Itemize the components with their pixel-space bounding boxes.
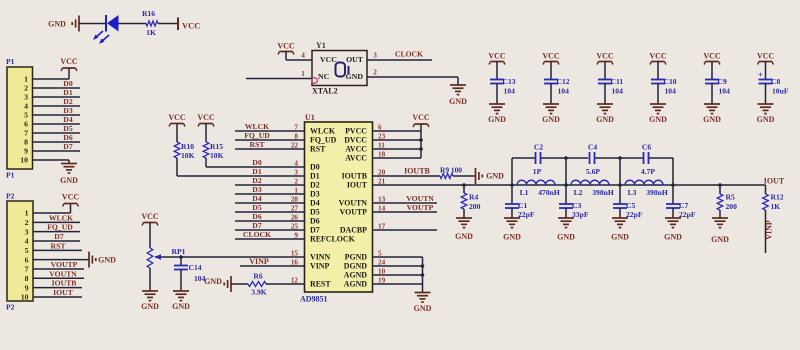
svg-text:VCC: VCC [197,113,215,122]
capacitor C14 [180,257,182,266]
wire [373,211,438,213]
power VCC [144,222,157,224]
wire [422,257,424,293]
svg-text:D3: D3 [252,185,262,194]
svg-text:5.6P: 5.6P [586,167,600,176]
ground [415,292,431,294]
svg-text:104: 104 [665,87,677,96]
svg-text:12: 12 [291,276,299,284]
svg-text:GND: GND [703,115,721,124]
power VCC [177,18,179,31]
resistor R15 [203,142,209,158]
svg-text:16: 16 [291,258,299,266]
wire [511,158,513,185]
svg-text:VCC: VCC [168,113,186,122]
svg-text:C2: C2 [534,143,543,152]
wire [420,124,422,158]
wire [765,84,767,105]
capacitor C9 [705,79,719,81]
capacitor C1 [511,185,513,204]
wire [33,212,71,214]
wire [711,84,713,105]
wire [235,220,305,222]
svg-text:REST: REST [310,280,331,289]
svg-text:14: 14 [378,204,386,212]
wire [33,268,84,270]
svg-text:D5: D5 [310,208,320,217]
svg-text:GND: GND [414,304,432,313]
svg-text:19: 19 [378,276,386,284]
svg-text:24: 24 [378,258,386,266]
svg-text:D1: D1 [252,167,262,176]
wire [541,157,588,159]
wire [511,208,513,218]
svg-text:L2: L2 [574,188,583,197]
wire [235,139,305,141]
resistor R6 [248,282,266,287]
svg-text:GND: GND [503,233,521,242]
svg-text:8: 8 [294,132,298,140]
svg-text:6: 6 [378,123,382,131]
ground [665,217,681,219]
ground [543,103,559,105]
svg-text:GND: GND [596,115,614,124]
svg-text:D7: D7 [54,232,64,241]
wire [235,202,305,204]
svg-text:390nH: 390nH [646,188,668,197]
resistor R9 [440,174,453,179]
svg-text:10K: 10K [210,151,224,160]
svg-text:R15: R15 [210,142,223,151]
svg-text:C8: C8 [771,77,780,86]
svg-text:VCC: VCC [182,20,200,30]
svg-text:2: 2 [294,177,298,185]
svg-text:1K: 1K [771,202,781,211]
svg-text:FQ_UD: FQ_UD [244,131,270,140]
svg-text:C4: C4 [588,143,597,152]
wire [463,209,465,218]
svg-text:9: 9 [24,147,28,156]
wire [373,139,422,141]
svg-text:VCC: VCC [542,52,560,61]
svg-text:R6: R6 [253,272,262,281]
wire [119,23,147,25]
svg-text:GND: GND [172,302,190,311]
inductor L3 [625,180,663,185]
svg-text:104: 104 [612,87,624,96]
svg-text:D0: D0 [252,158,262,167]
svg-text:22: 22 [291,141,299,149]
svg-text:C1: C1 [518,201,527,210]
wire [158,23,178,25]
svg-text:C14: C14 [189,263,202,272]
wire [373,274,423,276]
svg-text:VOUTN: VOUTN [406,194,434,203]
svg-text:10: 10 [21,293,29,302]
wire [33,249,82,251]
capacitor C6 [643,152,645,164]
svg-text:IOUT: IOUT [347,181,368,190]
svg-text:3: 3 [24,93,28,102]
wire [33,221,80,223]
wire [619,158,621,185]
wire [33,231,80,233]
svg-text:1K: 1K [146,28,156,37]
svg-text:6: 6 [25,255,29,264]
wire [373,265,423,267]
svg-text:VCC: VCC [62,193,80,202]
ground [504,217,520,219]
ground [450,84,466,86]
resistor R5 [719,185,721,194]
svg-text:R9 100: R9 100 [440,166,462,175]
svg-text:7: 7 [24,129,28,138]
svg-text:D5: D5 [252,203,262,212]
wire [33,96,81,98]
wire [367,76,458,78]
svg-text:21: 21 [378,177,386,185]
wire [619,208,621,218]
svg-text:R5: R5 [726,193,735,202]
svg-text:VOUTP: VOUTP [407,203,434,212]
svg-text:104: 104 [558,87,570,96]
svg-text:VOUTP: VOUTP [51,260,78,269]
svg-text:26: 26 [291,213,299,221]
ground [230,276,232,292]
svg-text:11: 11 [378,141,385,149]
wire [373,130,422,132]
svg-text:5: 5 [24,111,28,120]
svg-text:VOUTP: VOUTP [340,208,368,217]
wire [33,87,81,89]
resistor R16 [146,21,158,26]
svg-text:VCC: VCC [757,52,775,61]
wire [649,157,673,159]
svg-text:10: 10 [378,267,386,275]
svg-text:4: 4 [24,102,28,111]
svg-text:1: 1 [301,70,305,78]
wire [176,158,178,176]
svg-text:D2: D2 [63,97,73,106]
wire [367,59,432,61]
svg-text:C3: C3 [572,201,581,210]
svg-text:IOUT: IOUT [764,177,785,186]
svg-text:GND: GND [98,255,116,264]
svg-text:7: 7 [25,265,29,274]
resistor R12 [765,185,767,194]
ground [173,290,189,292]
wire [33,259,89,261]
node junction [179,255,183,259]
ground [597,103,613,105]
svg-text:FQ_UD: FQ_UD [310,136,337,145]
svg-text:VCC: VCC [488,52,506,61]
svg-text:D1: D1 [310,172,320,181]
svg-text:GND: GND [649,115,667,124]
svg-text:WLCK: WLCK [245,122,269,131]
capacitor C13 [490,79,504,81]
wire [595,157,643,159]
wire [550,84,552,105]
svg-text:D7: D7 [252,221,262,230]
capacitor C11 [598,79,612,81]
svg-text:D2: D2 [310,181,320,190]
svg-text:WLCK: WLCK [49,213,73,222]
ground [712,217,728,219]
wire [33,150,81,152]
svg-text:C13: C13 [503,77,516,86]
wire [373,148,422,150]
ground [650,103,666,105]
ground [758,103,774,105]
svg-text:2: 2 [24,84,28,93]
svg-text:D7: D7 [63,142,73,151]
svg-text:CLOCK: CLOCK [243,230,271,239]
wire [33,78,70,80]
svg-text:GND: GND [542,115,560,124]
svg-text:27: 27 [291,204,299,212]
wire [373,202,438,204]
svg-text:VCC: VCC [320,55,337,64]
svg-text:200: 200 [469,202,481,211]
svg-text:6: 6 [24,120,28,129]
wire [235,193,305,195]
svg-text:VCC: VCC [412,113,430,122]
power VCC [415,123,428,125]
svg-text:D3: D3 [310,190,320,199]
svg-text:D0: D0 [310,163,320,172]
capacitor C5 [619,185,621,204]
svg-text:15: 15 [291,249,299,257]
svg-text:AD9851: AD9851 [300,295,328,304]
svg-text:C9: C9 [718,77,727,86]
ground [142,290,158,292]
svg-text:FQ_UD: FQ_UD [47,223,73,232]
connector P2 [7,201,33,301]
svg-text:22pF: 22pF [518,210,535,219]
svg-text:1: 1 [25,209,29,218]
wire [180,270,182,292]
ground [558,217,574,219]
svg-text:IOUTB: IOUTB [404,167,430,176]
svg-text:VOUTN: VOUTN [49,269,77,278]
svg-text:33pF: 33pF [572,210,589,219]
svg-text:9: 9 [294,231,298,239]
svg-text:17: 17 [378,222,386,230]
wire [565,158,567,185]
svg-text:AVCC: AVCC [345,145,367,154]
wire [719,210,721,218]
svg-text:GND: GND [141,302,159,311]
wire [286,59,312,61]
wire [235,238,305,240]
wire [565,208,567,218]
wire [155,256,305,258]
svg-text:3: 3 [25,227,29,236]
svg-text:GND: GND [557,233,575,242]
wire [33,159,70,161]
svg-text:1: 1 [24,75,28,84]
capacitor C4 [589,152,591,164]
svg-text:PVCC: PVCC [345,127,367,136]
wire [33,277,84,279]
svg-text:Y1: Y1 [316,41,326,50]
wire [235,229,305,231]
svg-text:8: 8 [24,138,28,147]
wire [657,84,659,105]
power VCC [200,123,213,125]
svg-text:D2: D2 [252,176,262,185]
svg-text:D3: D3 [63,106,73,115]
ground [704,103,720,105]
wire [33,123,81,125]
svg-text:7: 7 [294,123,298,131]
capacitor C10 [651,79,665,81]
svg-text:IOUTB: IOUTB [342,172,368,181]
wire [235,148,305,150]
svg-text:4: 4 [25,237,29,246]
svg-text:DACBP: DACBP [340,226,367,235]
ground [456,217,472,219]
svg-text:GND: GND [204,277,222,286]
wire [235,184,305,186]
svg-text:2: 2 [25,218,29,227]
svg-text:GND: GND [664,233,682,242]
op-amp U1 AD9851 [305,122,373,292]
svg-text:R4: R4 [469,193,478,202]
svg-text:10K: 10K [181,151,195,160]
svg-text:VINN: VINN [310,253,330,262]
ground [489,103,505,105]
svg-text:VCC: VCC [703,52,721,61]
wire [373,157,422,159]
svg-text:RST: RST [250,140,266,149]
svg-text:VINP: VINP [310,262,329,271]
svg-text:1: 1 [294,186,298,194]
wire [177,175,305,177]
svg-text:C7: C7 [679,201,688,210]
svg-text:VINP: VINP [765,220,774,240]
svg-text:C6: C6 [642,143,651,152]
svg-text:1P: 1P [533,167,542,176]
svg-text:DGND: DGND [344,262,368,271]
capacitor C7 [672,185,674,204]
svg-text:GND: GND [486,172,504,181]
svg-text:IOUT: IOUT [53,288,74,297]
capacitor C8 [759,79,773,81]
svg-text:GND: GND [611,233,629,242]
svg-text:23: 23 [378,132,386,140]
power VCC [63,67,76,69]
svg-text:C10: C10 [664,77,677,86]
inductor L2 [571,180,609,185]
wire [373,229,438,231]
svg-text:3.9K: 3.9K [251,288,266,297]
svg-text:GND: GND [757,115,775,124]
svg-text:GND: GND [449,97,467,106]
svg-text:D4: D4 [252,194,262,203]
wire [235,130,305,132]
svg-text:GND: GND [455,232,473,241]
wire [373,283,423,285]
svg-text:D4: D4 [63,115,73,124]
power VCC [64,203,77,205]
wire [205,158,207,167]
svg-text:D6: D6 [252,212,262,221]
wire [33,240,80,242]
wire [149,268,151,291]
svg-text:104: 104 [504,87,516,96]
svg-text:200: 200 [726,202,738,211]
wire [765,210,767,253]
capacitor C3 [565,185,567,204]
resistor R10 [174,142,180,158]
wire [373,184,766,186]
power VCC [171,123,184,125]
svg-text:GND: GND [60,176,78,185]
wire [33,296,82,298]
svg-text:4.7P: 4.7P [641,167,655,176]
wire [235,211,305,213]
inductor L1 [517,180,555,185]
svg-text:D6: D6 [310,217,320,226]
svg-text:P1: P1 [6,57,15,66]
resistor R4 [463,185,465,193]
capacitor C2 [535,152,537,164]
svg-text:C11: C11 [611,77,624,86]
svg-text:D0: D0 [63,79,73,88]
power VCC [280,51,293,53]
svg-text:REFCLOCK: REFCLOCK [310,235,356,244]
svg-text:VCC: VCC [277,42,295,51]
svg-text:CLOCK: CLOCK [395,50,423,59]
svg-text:RP1: RP1 [172,247,186,256]
node junction [462,183,466,187]
svg-text:AGND: AGND [344,271,368,280]
svg-text:3: 3 [373,51,377,59]
svg-text:470nH: 470nH [538,188,560,197]
wire [512,157,535,159]
svg-text:XTAL2: XTAL2 [312,87,338,96]
wire [496,84,498,105]
wire [672,158,674,185]
wire [604,84,606,105]
wire [672,208,674,218]
wire [453,175,475,177]
svg-text:28: 28 [291,195,299,203]
svg-text:20: 20 [378,168,386,176]
svg-text:R16: R16 [142,9,155,18]
svg-text:AVCC: AVCC [345,154,367,163]
svg-text:VCC: VCC [60,57,78,66]
wire [33,287,82,289]
wire [266,283,305,285]
svg-text:P2: P2 [6,192,15,201]
svg-text:AGND: AGND [344,280,368,289]
svg-text:PGND: PGND [345,253,368,262]
svg-text:22pF: 22pF [679,210,696,219]
svg-text:D5: D5 [63,124,73,133]
potentiometer RP1 [147,248,153,268]
svg-text:R12: R12 [771,193,784,202]
svg-text:DVCC: DVCC [344,136,367,145]
wire [206,166,305,168]
svg-text:RST: RST [310,145,326,154]
LED D1 power indicator [105,15,107,32]
wire [373,256,423,258]
svg-text:VCC: VCC [141,212,159,221]
svg-text:C12: C12 [557,77,570,86]
